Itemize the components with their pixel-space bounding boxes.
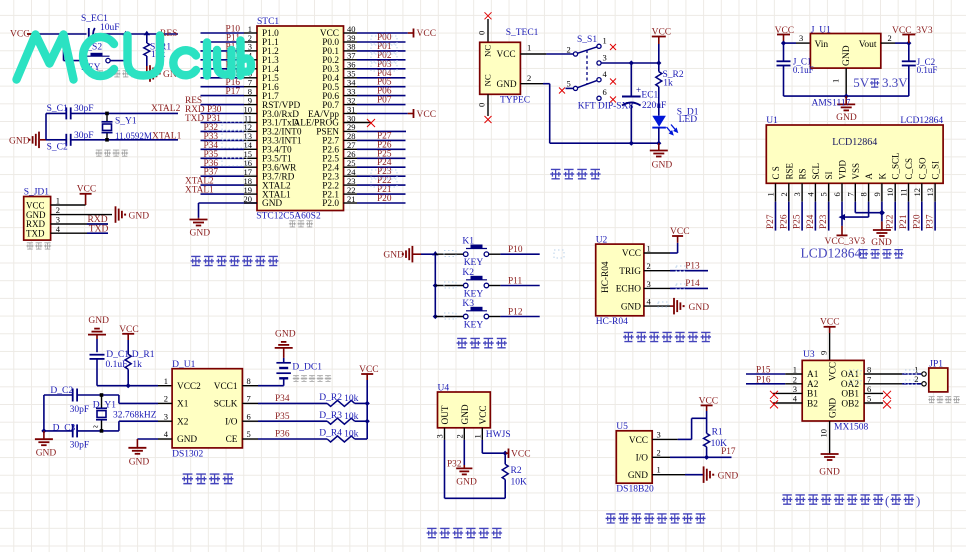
svg-text:STC12C5A60S2: STC12C5A60S2 (256, 211, 321, 221)
svg-text:D_R1: D_R1 (132, 350, 155, 360)
pin 8 wire (864, 373, 902, 375)
svg-text:A: A (864, 173, 874, 180)
svg-text:GND: GND (383, 251, 404, 261)
junction (503, 451, 508, 456)
svg-text:GND: GND (497, 80, 517, 90)
wire (127, 369, 129, 385)
wire (421, 253, 435, 255)
svg-text:KEY: KEY (464, 258, 484, 268)
svg-text:7: 7 (845, 192, 855, 196)
junction (60, 31, 66, 35)
svg-text:2: 2 (527, 73, 531, 83)
junction (433, 283, 438, 288)
svg-text:GND: GND (836, 113, 857, 123)
svg-text:1: 1 (164, 376, 168, 386)
junction (879, 210, 885, 216)
pin 0 top (487, 19, 489, 42)
wire (435, 253, 463, 255)
capacitor S_C1 (65, 107, 67, 119)
pin 3 stub (773, 392, 802, 394)
wire (658, 87, 660, 116)
svg-text:GND: GND (88, 316, 109, 326)
ground (703, 466, 705, 483)
svg-text:4: 4 (805, 192, 815, 197)
capacitor S_C2 (65, 134, 67, 146)
svg-text:D_R2: D_R2 (319, 393, 342, 403)
wire (543, 83, 550, 85)
svg-text:P37: P37 (926, 214, 936, 229)
no-erc (485, 12, 492, 19)
label (95, 150, 128, 156)
junction (629, 141, 634, 146)
wire (110, 60, 126, 62)
wire (96, 359, 98, 386)
svg-text:4: 4 (56, 224, 61, 234)
svg-text:Vout: Vout (859, 40, 877, 50)
svg-text:P26: P26 (779, 214, 789, 229)
svg-text:GND: GND (36, 449, 57, 459)
svg-text:P10: P10 (508, 245, 523, 255)
svg-text:SCLK: SCLK (214, 400, 238, 410)
capacitor S_EC1 (88, 28, 90, 40)
LED S_D1 (652, 116, 666, 127)
svg-text:1: 1 (647, 244, 651, 254)
svg-text:4: 4 (793, 394, 798, 404)
svg-text:OB1: OB1 (841, 390, 859, 400)
capacitor EC1 (630, 63, 632, 97)
svg-text:P16: P16 (756, 376, 771, 386)
svg-text:VCC: VCC (629, 436, 648, 446)
resistor S_R1 (144, 43, 150, 56)
svg-text:SCL: SCL (811, 163, 821, 180)
svg-text:2: 2 (454, 434, 464, 438)
svg-text:1: 1 (527, 43, 531, 53)
label (26, 243, 51, 249)
svg-text:1: 1 (657, 465, 661, 475)
svg-text:C_CS: C_CS (904, 158, 914, 180)
svg-text:2: 2 (793, 374, 797, 384)
junction (839, 214, 846, 220)
wire (706, 447, 708, 458)
svg-text:GND: GND (275, 329, 296, 339)
wires MCU left (201, 32, 245, 34)
svg-text:VCC: VCC (497, 50, 516, 60)
svg-text:Vin: Vin (815, 40, 829, 50)
caption (182, 474, 233, 484)
svg-text:OA1: OA1 (841, 370, 859, 380)
junction (365, 401, 370, 406)
svg-text:HWJS: HWJS (486, 430, 511, 440)
svg-text:5: 5 (247, 429, 251, 439)
svg-text:P21: P21 (899, 214, 909, 229)
label (289, 221, 313, 227)
svg-text:P13: P13 (685, 261, 700, 271)
junction (781, 41, 786, 46)
svg-text:S_S1: S_S1 (577, 35, 597, 45)
wires MCU right + net labels (344, 32, 358, 34)
pin 6 stub (864, 392, 883, 394)
ground (821, 453, 839, 455)
wire (45, 113, 47, 139)
pin 1 wire (652, 474, 685, 476)
svg-text:EC1: EC1 (641, 91, 658, 101)
svg-text:VCC: VCC (10, 30, 30, 40)
wire (842, 216, 869, 218)
svg-text:1k: 1k (663, 79, 673, 89)
ground (845, 96, 847, 104)
svg-text:~: ~ (93, 422, 99, 433)
svg-text:P20: P20 (912, 214, 922, 229)
svg-text:0: 0 (477, 103, 487, 107)
wire (504, 453, 506, 464)
svg-text:P11: P11 (508, 277, 522, 287)
caption (550, 169, 600, 178)
ground (456, 467, 472, 469)
wire (566, 87, 574, 89)
capacitor J_C2 (908, 43, 910, 61)
svg-text:GND: GND (129, 211, 150, 221)
no-erc (610, 44, 616, 50)
svg-text:TYPEC: TYPEC (500, 96, 530, 106)
svg-text:R1: R1 (712, 428, 723, 438)
svg-text:P25: P25 (793, 214, 803, 229)
wire (355, 438, 368, 440)
wire (784, 95, 909, 97)
wire VDD (841, 202, 843, 226)
ground (115, 206, 117, 223)
svg-text:30pF: 30pF (70, 405, 90, 415)
wire (44, 430, 73, 432)
pin 3 wire (644, 287, 670, 289)
pin 5 stub (864, 402, 883, 404)
svg-text:220uF: 220uF (642, 101, 666, 111)
svg-text:KEY: KEY (464, 321, 484, 331)
svg-text:P24: P24 (806, 214, 816, 229)
wire (43, 395, 45, 431)
wire (658, 128, 660, 144)
svg-text:1: 1 (766, 192, 776, 196)
svg-text:I/O: I/O (636, 454, 649, 464)
wire P16 (746, 383, 785, 385)
svg-text:X1: X1 (177, 400, 189, 410)
svg-text:GND: GND (689, 303, 710, 313)
svg-text:6: 6 (247, 411, 251, 421)
svg-text:GND: GND (190, 229, 211, 239)
svg-text:U3: U3 (803, 350, 815, 360)
wire (63, 34, 65, 61)
svg-text:6: 6 (832, 192, 842, 196)
wire (658, 44, 660, 72)
ground (881, 221, 883, 229)
wire (445, 497, 506, 499)
pin 7 wire (864, 383, 902, 385)
svg-text:10: 10 (885, 188, 895, 197)
svg-text:GND: GND (628, 471, 648, 481)
wire P15 (746, 373, 785, 375)
svg-text:VCC: VCC (26, 200, 45, 210)
svg-text:3: 3 (792, 192, 802, 196)
junction (105, 112, 109, 116)
svg-text:GND: GND (129, 458, 150, 468)
svg-text:3: 3 (657, 430, 661, 440)
junction (126, 383, 131, 388)
pushbutton S_S2 (84, 55, 110, 57)
pin 1 gnd (845, 68, 847, 96)
resistor R1 (704, 433, 710, 446)
svg-text:GND: GND (177, 435, 197, 445)
svg-text:4: 4 (603, 69, 608, 79)
wire pin20 to gnd (198, 203, 200, 218)
svg-text:10k: 10k (344, 412, 359, 422)
svg-text:HC-R04: HC-R04 (596, 317, 628, 327)
wire (434, 254, 436, 316)
pin 2 wire (644, 270, 670, 272)
svg-text:7: 7 (867, 374, 871, 384)
resistor R2 (502, 464, 508, 479)
svg-text:GND: GND (262, 199, 282, 209)
caption (606, 514, 706, 523)
svg-text:5: 5 (567, 79, 571, 89)
svg-text:0: 0 (477, 31, 487, 35)
svg-text:A2: A2 (807, 380, 819, 390)
wire (504, 480, 506, 499)
svg-text:GND: GND (829, 398, 839, 418)
wire GND (463, 440, 465, 465)
svg-text:OUT: OUT (441, 405, 451, 424)
capacitor D_C3 (72, 424, 74, 437)
svg-text:I/O: I/O (225, 417, 238, 427)
svg-text:0.1uF: 0.1uF (106, 360, 128, 370)
caption (191, 256, 279, 265)
crystal S_Y1 (106, 113, 108, 121)
svg-text:GND: GND (621, 302, 641, 312)
svg-text:P14: P14 (685, 279, 700, 289)
wire (46, 112, 66, 114)
svg-text:VCC2: VCC2 (177, 382, 201, 392)
svg-text:KEY: KEY (464, 290, 484, 300)
svg-text:D_Y1: D_Y1 (93, 401, 116, 411)
svg-text:SI: SI (824, 171, 834, 179)
pins LCD (775, 183, 777, 201)
svg-text:MX1508: MX1508 (834, 423, 869, 433)
pin 1 wire (644, 252, 670, 254)
wire (146, 34, 148, 43)
caption (427, 528, 503, 537)
pin 3 wire (652, 438, 678, 440)
caption (457, 338, 507, 347)
svg-text:A1: A1 (807, 370, 819, 380)
svg-text:VCC: VCC (511, 450, 531, 460)
svg-text:D_R4: D_R4 (319, 429, 342, 439)
svg-text:VCC: VCC (829, 362, 839, 381)
svg-text:OB2: OB2 (841, 399, 859, 409)
svg-text:9: 9 (819, 351, 829, 355)
svg-text:C_SI: C_SI (931, 161, 941, 180)
resistor D_R1 (125, 354, 131, 369)
wire (127, 340, 129, 354)
junction (144, 31, 150, 35)
svg-text:K: K (877, 173, 887, 180)
power port VCC_3V3 (841, 226, 843, 236)
svg-text:4: 4 (647, 297, 652, 307)
battery D_DC1 (276, 362, 291, 364)
svg-text:P20: P20 (377, 194, 392, 204)
svg-text:B2: B2 (807, 399, 818, 409)
wire (44, 394, 73, 396)
svg-text:DS1302: DS1302 (172, 450, 203, 460)
svg-text:DS18B20: DS18B20 (616, 484, 654, 494)
svg-text:P22: P22 (886, 214, 896, 229)
wire (881, 202, 883, 222)
svg-text:3: 3 (164, 411, 168, 421)
svg-text:P17: P17 (226, 87, 241, 97)
svg-text:P36: P36 (275, 430, 290, 440)
svg-text:1: 1 (914, 364, 918, 374)
watermark MCUclub (17, 35, 252, 80)
svg-text:1: 1 (793, 365, 797, 375)
ground (43, 431, 45, 439)
svg-text:VCC: VCC (417, 29, 437, 39)
wires + net labels LCD (775, 202, 777, 231)
wire VCC (481, 440, 483, 453)
svg-text:8: 8 (859, 192, 869, 196)
svg-text:32.768kHZ: 32.768kHZ (113, 411, 157, 421)
svg-text:5: 5 (819, 192, 829, 196)
svg-text:VCC: VCC (417, 110, 437, 120)
svg-text:R2: R2 (511, 466, 522, 476)
svg-text:NC: NC (483, 45, 493, 57)
wire (706, 411, 708, 433)
svg-text:XTAL1: XTAL1 (185, 186, 214, 196)
svg-text:GND: GND (456, 478, 477, 488)
svg-text:11: 11 (899, 188, 909, 196)
svg-text:B1: B1 (807, 390, 818, 400)
svg-text:NC: NC (483, 74, 493, 86)
pin wire (242, 438, 258, 440)
svg-text:1: 1 (831, 79, 841, 83)
crystal D_Y1 (101, 395, 103, 408)
svg-text:TXD: TXD (26, 229, 45, 239)
svg-text:13: 13 (925, 188, 935, 197)
svg-text:3: 3 (435, 434, 445, 438)
resistor D_R2 (327, 400, 355, 406)
svg-text:P34: P34 (275, 394, 290, 404)
svg-text:P07: P07 (377, 96, 392, 106)
svg-text:S_C2: S_C2 (47, 143, 68, 153)
svg-text:1k: 1k (132, 360, 142, 370)
label (96, 71, 137, 77)
svg-text:RS: RS (798, 168, 808, 179)
svg-text:P12: P12 (508, 308, 523, 318)
svg-text:VCC: VCC (622, 249, 641, 259)
svg-text:HC-R04: HC-R04 (601, 261, 611, 293)
svg-text:D_C3: D_C3 (53, 424, 76, 434)
svg-text:C S: C S (771, 166, 781, 179)
svg-text:2: 2 (779, 192, 789, 196)
svg-text:CE: CE (226, 435, 238, 445)
svg-text:12: 12 (912, 188, 922, 197)
wire (435, 316, 463, 318)
svg-text:+: + (636, 85, 641, 95)
svg-text:1: 1 (472, 434, 482, 438)
svg-text:OA2: OA2 (841, 380, 859, 390)
wire (854, 202, 856, 213)
pin wire (242, 420, 258, 422)
svg-text:1: 1 (56, 196, 60, 206)
ground MCU (198, 217, 200, 220)
pin 4 wire (644, 305, 670, 307)
wire (146, 56, 148, 66)
pin 0 bottom (487, 94, 489, 116)
svg-text:0.1uF: 0.1uF (917, 65, 938, 75)
junction (123, 31, 129, 35)
svg-text:P35: P35 (275, 412, 290, 422)
svg-text:3: 3 (799, 33, 803, 43)
svg-text:9: 9 (872, 192, 882, 196)
svg-text:GND: GND (819, 468, 840, 478)
svg-text:XTAL2: XTAL2 (151, 104, 181, 114)
svg-text:GND: GND (718, 472, 739, 482)
junction (656, 141, 661, 146)
resistor D_R3 (327, 418, 355, 424)
svg-text:3: 3 (647, 279, 651, 289)
svg-text:AMS1117: AMS1117 (812, 99, 851, 109)
svg-text:LCD12864: LCD12864 (832, 137, 877, 148)
svg-text:GND: GND (842, 45, 852, 66)
pins U4 (444, 428, 446, 440)
svg-text:6: 6 (867, 384, 871, 394)
power port VCC (505, 452, 508, 454)
wire (46, 139, 66, 141)
svg-text:S_C1: S_C1 (47, 104, 68, 114)
ground (658, 143, 660, 150)
no-erc (485, 116, 492, 123)
svg-text:C_SCL: C_SCL (891, 152, 901, 179)
junction (432, 251, 438, 255)
wire (601, 62, 659, 64)
junction (906, 41, 911, 46)
svg-text:2: 2 (647, 261, 651, 271)
svg-text:0.1uF: 0.1uF (793, 65, 814, 75)
wire (366, 380, 368, 439)
pin 4 gnd wire (158, 438, 172, 440)
capacitor D_C1 (90, 354, 105, 356)
svg-text:D_DC1: D_DC1 (292, 363, 322, 373)
pin 4 stub (773, 402, 802, 404)
wire OUT (444, 440, 446, 498)
svg-text:4: 4 (164, 429, 169, 439)
svg-text:30pF: 30pF (70, 441, 90, 451)
wire (96, 339, 98, 352)
svg-text:GND: GND (871, 238, 892, 248)
pin 9 (829, 333, 831, 360)
svg-text:VDD: VDD (838, 160, 848, 180)
svg-text:C_SO: C_SO (917, 157, 927, 180)
wire (546, 53, 573, 55)
pin 8 wire (242, 385, 258, 387)
svg-text:P15: P15 (756, 366, 771, 376)
svg-text:D_C1: D_C1 (106, 350, 129, 360)
wire (435, 285, 463, 287)
svg-text:VSS: VSS (851, 163, 861, 180)
svg-text:11.0592M: 11.0592M (115, 131, 152, 141)
svg-text:S_TEC1: S_TEC1 (506, 28, 539, 38)
svg-text:1: 1 (603, 36, 607, 46)
svg-text:P17: P17 (721, 447, 736, 457)
wire (40, 33, 87, 35)
svg-text:10: 10 (819, 429, 829, 438)
svg-text:VCC: VCC (479, 405, 489, 424)
